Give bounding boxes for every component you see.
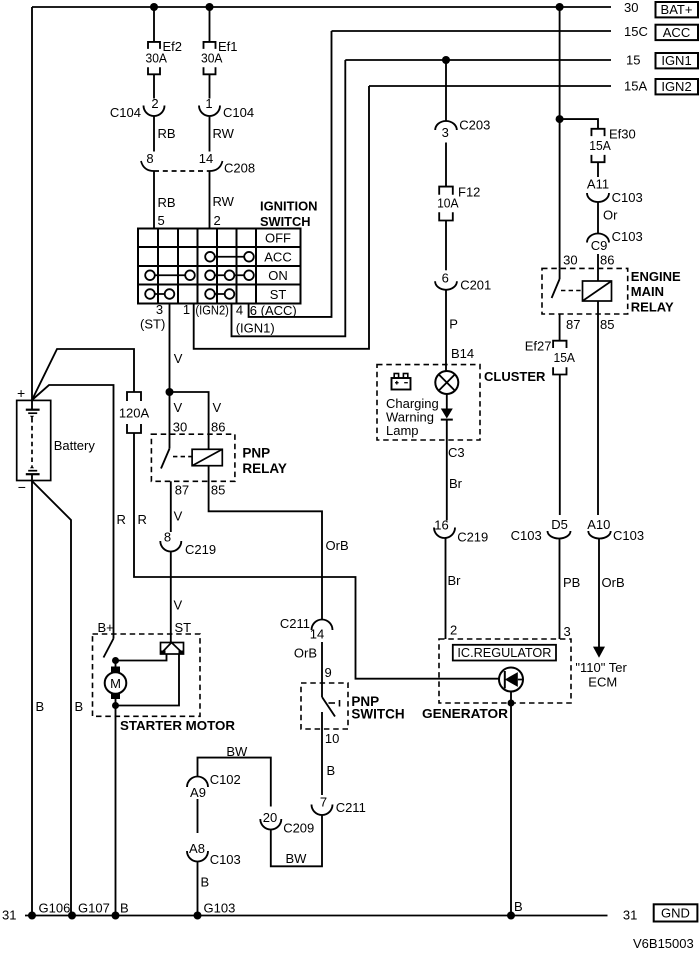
label SWITCH pnp xyxy=(351,707,404,722)
connector C103 pin D5 xyxy=(548,531,571,539)
svg-text:2: 2 xyxy=(151,96,158,111)
label A11 xyxy=(587,177,609,192)
svg-text:V: V xyxy=(174,598,183,613)
wire pnp 87 to C219 xyxy=(170,481,172,532)
label Br lower xyxy=(448,573,462,588)
wire Ef30 to A11 xyxy=(597,162,599,177)
connector C208 pin 8 half xyxy=(141,161,154,171)
label Ef1 xyxy=(218,39,238,54)
label Charging xyxy=(386,396,439,411)
connector C211 pin 14 xyxy=(312,620,333,631)
svg-text:A9: A9 xyxy=(190,785,206,800)
pnp relay coil xyxy=(192,449,222,465)
svg-text:A11: A11 xyxy=(587,177,609,192)
label Lamp xyxy=(386,423,419,438)
label 87 pnp xyxy=(175,483,189,498)
svg-text:B: B xyxy=(36,699,45,714)
svg-text:4: 4 xyxy=(236,303,243,318)
svg-text:C104: C104 xyxy=(223,105,254,120)
svg-text:30: 30 xyxy=(173,420,187,435)
wire F12 to C201 xyxy=(445,221,447,271)
pnp relay switch blade xyxy=(161,449,170,469)
svg-text:14: 14 xyxy=(310,627,324,642)
svg-text:10: 10 xyxy=(325,731,339,746)
wire fuse Ef1 to C104 xyxy=(209,74,211,98)
wire pin4 to IGN1 bus xyxy=(232,60,346,336)
svg-text:B: B xyxy=(201,875,210,890)
label ECM xyxy=(588,675,617,690)
wire engine relay 85 to A10 xyxy=(597,301,599,515)
node Ef30 branch xyxy=(556,115,564,123)
label B left xyxy=(36,699,45,714)
terminal box GND xyxy=(654,904,698,921)
label Ef2 xyxy=(163,39,183,54)
wire branch to Ef30 xyxy=(560,119,598,129)
wire battery positive diagonal to starter B+ xyxy=(32,385,114,639)
svg-text:MAIN: MAIN xyxy=(631,284,664,299)
svg-text:RELAY: RELAY xyxy=(631,300,674,315)
wire C104 to C208 RB xyxy=(153,116,155,152)
svg-text:IGNITION: IGNITION xyxy=(260,199,318,214)
wire generator to ground bus xyxy=(510,703,512,916)
label OrB right xyxy=(602,575,625,590)
svg-text:A10: A10 xyxy=(587,517,610,532)
label 30A Ef2 xyxy=(146,51,168,66)
wire arrow to ECM xyxy=(598,539,600,649)
svg-text:IGN2: IGN2 xyxy=(661,79,691,94)
label pin 3 generator xyxy=(564,624,571,639)
fuse F12 xyxy=(439,187,453,221)
svg-text:1: 1 xyxy=(205,96,212,111)
label OrB mid xyxy=(294,646,317,661)
svg-text:RW: RW xyxy=(213,126,235,141)
label 86 pnp xyxy=(211,420,225,435)
svg-text:8: 8 xyxy=(164,530,171,545)
node motor bottom xyxy=(112,702,119,709)
label V6B15003 xyxy=(633,936,694,951)
label RW lower xyxy=(213,194,235,209)
svg-text:Br: Br xyxy=(448,573,462,588)
wire 31/GND bus xyxy=(25,915,608,917)
connector C104 pin 2 xyxy=(144,106,165,117)
svg-text:Br: Br xyxy=(449,476,463,491)
wire solenoid right pin to motor bottom xyxy=(116,654,180,706)
svg-text:15C: 15C xyxy=(624,24,648,39)
label MAIN xyxy=(631,284,664,299)
svg-text:86: 86 xyxy=(211,420,225,435)
wire A11 to C9 xyxy=(597,202,599,234)
wire battery negative diagonal to G107 xyxy=(32,481,71,916)
engine relay coil xyxy=(583,281,612,301)
label A8 xyxy=(189,841,205,856)
wire C208 to ignition switch pin 5 xyxy=(153,171,155,229)
connector C102 pin A9 xyxy=(187,777,208,787)
svg-text:30: 30 xyxy=(624,0,638,15)
svg-text:RW: RW xyxy=(213,194,235,209)
svg-text:P: P xyxy=(449,317,458,332)
fuse Ef2 xyxy=(148,42,160,74)
wire diode down to C3 xyxy=(446,420,448,521)
label 6 (ACC) xyxy=(250,303,297,318)
label B pnp xyxy=(327,763,336,778)
svg-text:(ST): (ST) xyxy=(140,317,165,332)
label B at G103 xyxy=(201,875,210,890)
generator diode circle xyxy=(499,668,523,692)
svg-text:3: 3 xyxy=(442,125,449,140)
label ST row xyxy=(270,287,287,302)
svg-text:9: 9 xyxy=(325,665,332,680)
pnp relay box xyxy=(151,434,235,481)
wire lamp to diode xyxy=(446,394,448,409)
node on BAT+ bus at Ef1 xyxy=(206,3,214,11)
node generator ground xyxy=(507,912,515,920)
svg-text:C103: C103 xyxy=(612,229,643,244)
svg-text:Ef30: Ef30 xyxy=(609,127,636,142)
label pin 1 bottom xyxy=(183,302,190,317)
svg-text:C104: C104 xyxy=(110,105,141,120)
label Or xyxy=(603,208,618,223)
label V above junction xyxy=(174,351,183,366)
label PNP xyxy=(242,446,270,461)
wire pnp switch pin10 down xyxy=(321,712,323,795)
label 31 right xyxy=(623,908,637,923)
svg-text:BW: BW xyxy=(286,851,308,866)
label RELAY xyxy=(242,461,287,476)
wire C208 to ignition switch pin 2 xyxy=(209,171,211,229)
pnp relay dashed actuator link xyxy=(173,456,192,458)
label 30 engine relay xyxy=(563,253,577,268)
label 86 engine relay xyxy=(600,253,614,268)
fuse Ef27 xyxy=(553,341,566,375)
label C104 left xyxy=(110,105,141,120)
label G103 xyxy=(204,901,236,916)
label C211 pin14 xyxy=(280,616,310,631)
motor M circle xyxy=(105,672,127,694)
node on BAT+ bus at Ef2 xyxy=(150,3,158,11)
svg-text:PB: PB xyxy=(563,575,580,590)
label C209 xyxy=(283,821,314,836)
svg-text:V: V xyxy=(174,509,183,524)
label ENGINE xyxy=(631,269,681,284)
switch contacts ST row right xyxy=(205,289,234,299)
battery internal dashed link xyxy=(31,418,33,466)
label RELAY engine xyxy=(631,300,674,315)
label pin 6 C201 xyxy=(442,271,449,286)
svg-text:OrB: OrB xyxy=(326,538,349,553)
svg-text:C102: C102 xyxy=(210,772,241,787)
battery internal bottom plates xyxy=(26,465,40,480)
svg-text:C208: C208 xyxy=(224,161,255,176)
label V pin87 xyxy=(174,509,183,524)
wire junction to relay switch xyxy=(169,392,171,449)
label BW bottom xyxy=(286,851,308,866)
label V pin30 xyxy=(174,400,183,415)
label pin 20 xyxy=(263,810,277,825)
wire BAT+ to engine relay pin 30 xyxy=(559,7,561,268)
svg-text:BAT+: BAT+ xyxy=(661,2,693,17)
svg-text:ST: ST xyxy=(175,620,192,635)
wire engine relay 87 to Ef27 xyxy=(559,314,561,341)
svg-text:8: 8 xyxy=(146,151,153,166)
fuse Ef30 xyxy=(591,129,604,162)
svg-text:STARTER MOTOR: STARTER MOTOR xyxy=(120,718,236,733)
label ST solenoid xyxy=(175,620,192,635)
label ON row xyxy=(268,268,288,283)
wire IGN1 bus to C203 xyxy=(445,60,447,121)
svg-text:(IGN1): (IGN1) xyxy=(236,321,275,336)
node G107 xyxy=(68,912,76,920)
svg-text:20: 20 xyxy=(263,810,277,825)
cluster box xyxy=(377,365,480,440)
switch contacts ST row left xyxy=(145,289,174,299)
connector C208 pin 14 half xyxy=(210,161,223,171)
wire 15A/IGN2 bus xyxy=(369,85,611,87)
switch contacts ON row right xyxy=(205,270,254,280)
connector C219 pin 8 xyxy=(160,541,181,551)
svg-text:2: 2 xyxy=(214,213,221,228)
wire battery feed from BAT+ bus xyxy=(31,7,33,400)
starter solenoid xyxy=(161,643,184,655)
svg-text:IC.REGULATOR: IC.REGULATOR xyxy=(457,646,551,660)
label 15A Ef27 xyxy=(554,350,576,365)
terminal box BAT+ xyxy=(656,2,699,17)
label pin 8 xyxy=(146,151,153,166)
label pin 2 lower xyxy=(214,213,221,228)
label A10 xyxy=(587,517,610,532)
svg-text:V: V xyxy=(213,400,222,415)
label pin 3 C203 xyxy=(442,125,449,140)
battery internal top plates xyxy=(26,400,40,419)
svg-text:16: 16 xyxy=(434,518,448,533)
pnp switch box xyxy=(301,683,348,729)
wire starter motor ground xyxy=(115,706,117,916)
label 85 pnp xyxy=(211,483,225,498)
generator diode xyxy=(505,671,523,688)
terminal box ACC xyxy=(656,25,699,40)
wire pnp 85 to C211 pin14 xyxy=(209,466,322,620)
svg-text:ON: ON xyxy=(268,268,288,283)
svg-text:C211: C211 xyxy=(336,800,366,815)
label (IGN1) xyxy=(236,321,275,336)
label C103 at A11 xyxy=(612,190,643,205)
svg-text:120A: 120A xyxy=(119,406,150,421)
label pin 7 xyxy=(320,795,327,810)
svg-text:ECM: ECM xyxy=(588,675,617,690)
label Battery xyxy=(54,438,96,453)
wire pin6 to ACC bus xyxy=(249,31,332,317)
svg-text:OrB: OrB xyxy=(294,646,317,661)
ignition switch grid xyxy=(138,229,301,304)
svg-text:IGN1: IGN1 xyxy=(661,53,691,68)
svg-text:Or: Or xyxy=(603,208,618,223)
svg-text:87: 87 xyxy=(175,483,189,498)
node on IGN1 bus at C203 xyxy=(442,56,450,64)
label G106 xyxy=(39,901,71,916)
label pin 16 xyxy=(434,518,448,533)
wire BAT+ bus to fuse Ef2 xyxy=(153,7,155,42)
label C102 xyxy=(210,772,241,787)
connector C208 dashed link xyxy=(154,170,210,172)
label C211 pin7 xyxy=(336,800,366,815)
wire diode to ground dot xyxy=(510,692,512,704)
label pin 14 xyxy=(199,151,213,166)
label G107 xyxy=(78,901,110,916)
svg-text:31: 31 xyxy=(623,908,637,923)
label C201 xyxy=(460,278,491,293)
motor M brushes xyxy=(111,667,120,700)
label B generator xyxy=(514,899,523,914)
svg-text:30A: 30A xyxy=(146,51,168,66)
label C208 xyxy=(224,161,255,176)
node G106 xyxy=(28,912,36,920)
label C9 xyxy=(591,238,608,253)
label V solenoid xyxy=(174,598,183,613)
label 85 engine relay xyxy=(600,317,614,332)
svg-text:3: 3 xyxy=(156,302,163,317)
label IC.REGULATOR xyxy=(457,646,551,660)
pnp switch blade xyxy=(322,697,335,717)
label SWITCH xyxy=(260,214,311,229)
wire C219-16 to generator pin 2 xyxy=(445,538,447,639)
svg-text:C103: C103 xyxy=(613,528,644,543)
svg-text:GENERATOR: GENERATOR xyxy=(422,706,509,721)
label pin 4 xyxy=(236,303,243,318)
connector C104 pin 1 xyxy=(199,106,220,117)
cluster charge lamp xyxy=(435,371,458,394)
switch contacts ACC row xyxy=(205,252,254,262)
svg-text:V6B15003: V6B15003 xyxy=(633,936,694,951)
svg-text:1: 1 xyxy=(183,302,190,317)
svg-text:G106: G106 xyxy=(39,901,71,916)
svg-text:(IGN2): (IGN2) xyxy=(195,303,229,318)
svg-text:C103: C103 xyxy=(511,528,542,543)
label C103 at D5 xyxy=(511,528,542,543)
wire fuse Ef2 to C104 xyxy=(153,74,155,98)
label B second xyxy=(75,699,84,714)
terminal box IGN2 xyxy=(656,79,699,94)
svg-text:6 (ACC): 6 (ACC) xyxy=(250,303,297,318)
wire motor axis xyxy=(115,661,117,706)
label 30 xyxy=(624,0,638,15)
wire C201 to cluster xyxy=(445,290,447,371)
label B starter ground xyxy=(120,901,129,916)
label Ef27 xyxy=(525,339,552,354)
svg-text:15: 15 xyxy=(626,53,640,68)
svg-text:SWITCH: SWITCH xyxy=(260,214,311,229)
arrowhead to ECM xyxy=(593,647,605,658)
wire pin3 ST down xyxy=(169,304,171,393)
wire C203 to F12 xyxy=(445,143,447,187)
wire C211-7 to C209 xyxy=(271,815,322,866)
svg-text:15A: 15A xyxy=(554,350,576,365)
svg-text:C211: C211 xyxy=(280,616,310,631)
svg-text:ACC: ACC xyxy=(264,250,291,265)
svg-text:V: V xyxy=(174,351,183,366)
label + terminal xyxy=(17,385,25,401)
svg-text:CLUSTER: CLUSTER xyxy=(484,369,546,384)
label RW upper xyxy=(213,126,235,141)
svg-text:30: 30 xyxy=(563,253,577,268)
svg-text:GND: GND xyxy=(661,906,690,921)
svg-text:R: R xyxy=(138,512,147,527)
svg-text:BW: BW xyxy=(226,744,248,759)
svg-text:B: B xyxy=(120,901,129,916)
svg-text:+: + xyxy=(17,385,25,401)
svg-text:B: B xyxy=(327,763,336,778)
label B+ xyxy=(98,620,114,635)
label F12 xyxy=(458,184,480,199)
label C103 at C9 xyxy=(612,229,643,244)
wire battery negative to G106 xyxy=(31,481,33,916)
svg-text:Lamp: Lamp xyxy=(386,423,419,438)
connector C103 pin A11 xyxy=(587,193,609,202)
svg-text:B: B xyxy=(514,899,523,914)
svg-text:C3: C3 xyxy=(448,445,465,460)
svg-text:6: 6 xyxy=(442,271,449,286)
svg-text:B+: B+ xyxy=(98,620,114,635)
wire battery positive diagonal to 120A fuse xyxy=(32,349,134,400)
wire C9 to relay coil xyxy=(597,254,599,281)
label OFF xyxy=(265,231,291,246)
label Ef30 xyxy=(609,127,636,142)
svg-text:V: V xyxy=(174,400,183,415)
label 30A Ef1 xyxy=(201,51,223,66)
label A9 xyxy=(190,785,206,800)
pnp switch actuator dash xyxy=(329,700,340,707)
connector C203 pin 3 xyxy=(435,121,457,130)
generator box xyxy=(439,639,571,703)
fuse 120A xyxy=(119,392,150,433)
wire C209 up to BW corner xyxy=(198,758,271,807)
label 30 pnp xyxy=(173,420,187,435)
label 110 Ter xyxy=(575,660,627,675)
label R at starter wire xyxy=(117,512,126,527)
wire Ef27 to D5 xyxy=(559,375,561,516)
svg-text:C219: C219 xyxy=(185,542,216,557)
svg-text:RELAY: RELAY xyxy=(242,461,287,476)
svg-text:86: 86 xyxy=(600,253,614,268)
connector C209 pin 20 xyxy=(260,819,281,830)
label 15C xyxy=(624,24,648,39)
label pin 3 xyxy=(156,302,163,317)
node starter ground xyxy=(112,912,120,920)
wire A9 to A8 xyxy=(197,799,199,833)
connector C103 pin C9 xyxy=(587,234,609,243)
label pin 2 xyxy=(151,96,158,111)
svg-text:30A: 30A xyxy=(201,51,223,66)
label RB upper xyxy=(158,126,176,141)
label 10A xyxy=(437,196,459,211)
svg-text:OFF: OFF xyxy=(265,231,291,246)
label C219 at 16 xyxy=(457,530,488,545)
label pin 2 generator xyxy=(450,623,457,638)
label C203 xyxy=(459,118,490,133)
node starter contact xyxy=(112,657,119,664)
wire BAT+ bus to fuse Ef1 xyxy=(209,7,211,42)
svg-text:ST: ST xyxy=(270,287,287,302)
svg-text:10A: 10A xyxy=(437,196,459,211)
label pin 14 C211 xyxy=(310,627,324,642)
svg-text:B14: B14 xyxy=(451,346,474,361)
svg-text:RB: RB xyxy=(158,195,176,210)
connector C103 pin A10 xyxy=(588,531,610,539)
svg-text:RB: RB xyxy=(158,126,176,141)
label RB lower xyxy=(158,195,176,210)
connector C103 pin A8 xyxy=(187,851,208,862)
svg-text:2: 2 xyxy=(450,623,457,638)
wire 30/BAT+ bus xyxy=(32,6,611,8)
engine relay switch blade xyxy=(552,268,560,298)
